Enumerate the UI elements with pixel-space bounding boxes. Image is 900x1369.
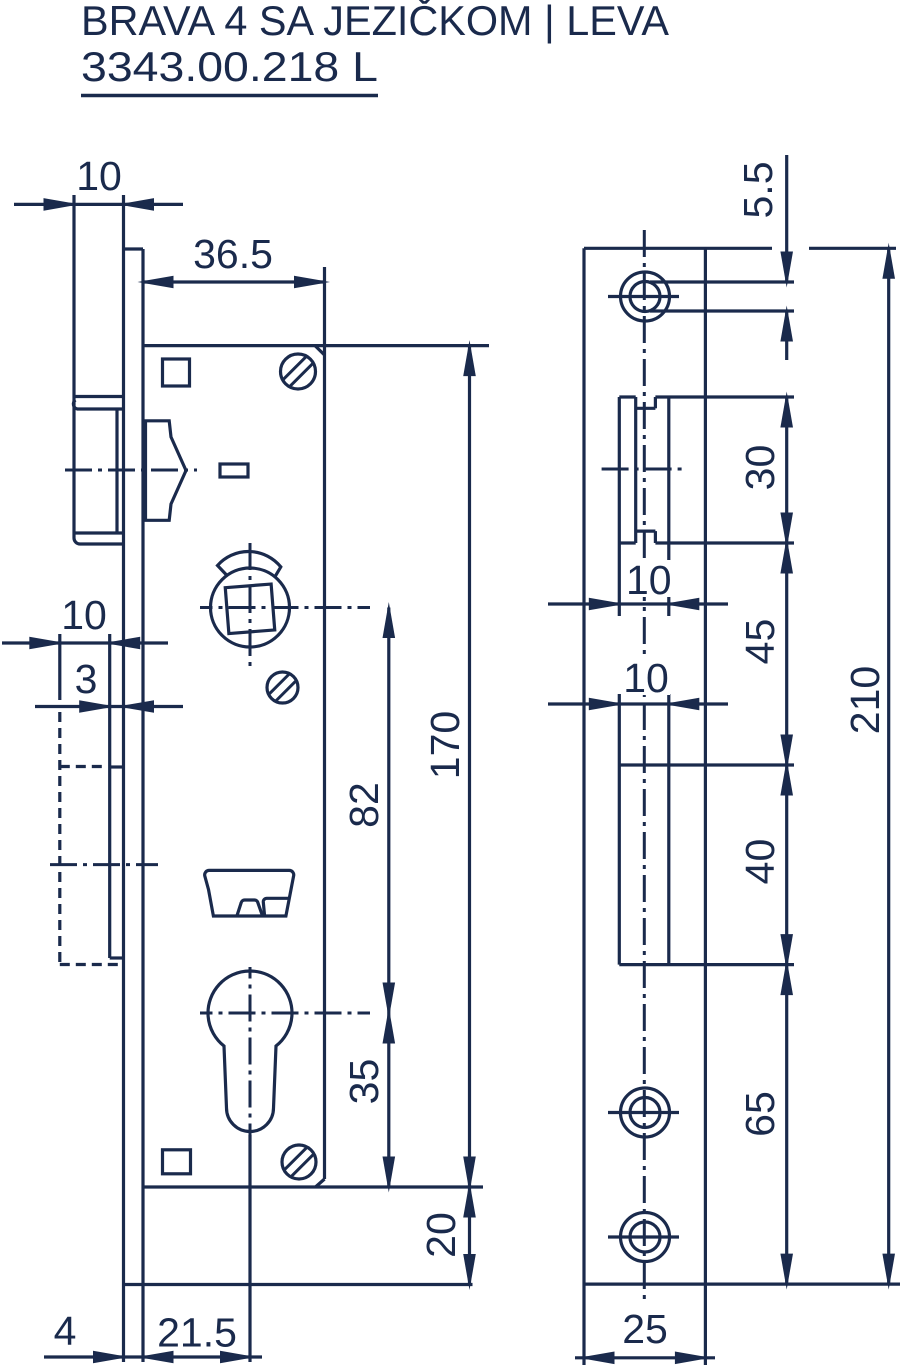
svg-text:BRAVA 4 SA JEZIČKOM | LEVA: BRAVA 4 SA JEZIČKOM | LEVA (81, 0, 669, 44)
svg-text:3343.00.218 L: 3343.00.218 L (81, 43, 378, 90)
svg-text:20: 20 (418, 1212, 464, 1258)
svg-text:5.5: 5.5 (735, 162, 781, 219)
svg-text:30: 30 (737, 445, 783, 491)
svg-text:25: 25 (622, 1306, 668, 1352)
svg-text:170: 170 (422, 711, 468, 779)
svg-text:36.5: 36.5 (193, 231, 273, 277)
svg-text:82: 82 (341, 782, 387, 828)
svg-text:3: 3 (75, 656, 98, 702)
svg-text:10: 10 (61, 592, 107, 638)
svg-text:35: 35 (341, 1059, 387, 1105)
svg-text:210: 210 (842, 666, 888, 734)
svg-text:4: 4 (54, 1308, 77, 1354)
svg-text:10: 10 (76, 153, 122, 199)
svg-text:21.5: 21.5 (157, 1310, 237, 1356)
svg-text:10: 10 (626, 557, 672, 603)
svg-text:65: 65 (737, 1091, 783, 1137)
svg-text:45: 45 (737, 619, 783, 665)
svg-text:10: 10 (623, 655, 669, 701)
svg-text:40: 40 (737, 839, 783, 885)
